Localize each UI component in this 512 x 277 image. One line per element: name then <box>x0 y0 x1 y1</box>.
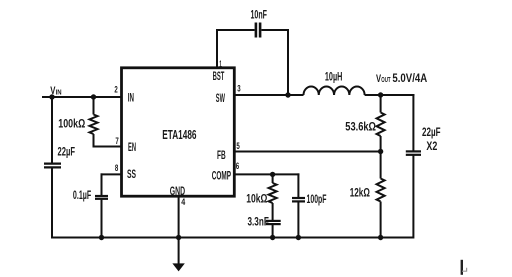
wire VIN to C1 <box>51 97 53 163</box>
svg-text:5: 5 <box>236 141 239 151</box>
resistor R4 10kΩ <box>269 183 277 203</box>
artifact text cursor <box>461 260 467 275</box>
svg-text:10µH: 10µH <box>325 69 343 83</box>
node rail junction C6 <box>296 235 301 240</box>
wire C1 to ground rail <box>51 168 53 239</box>
label C6 100pF <box>307 192 327 206</box>
svg-text:1: 1 <box>219 59 222 69</box>
pin label FB <box>217 148 226 162</box>
wire FB pin to divider <box>234 151 381 153</box>
label C5 3.3nF <box>248 214 269 228</box>
pin label SW <box>216 91 225 105</box>
label C4 X2 <box>426 139 437 153</box>
node SW/BST junction <box>285 92 290 97</box>
pin number 6 <box>236 161 239 171</box>
svg-text:COMP: COMP <box>212 168 231 182</box>
wire R1 to EN <box>93 134 122 148</box>
svg-text:BST: BST <box>213 69 225 83</box>
svg-text:22µF: 22µF <box>58 144 76 158</box>
inductor L1 10µH <box>304 87 365 96</box>
svg-text:4: 4 <box>181 197 185 207</box>
wire R2 to FB node <box>380 136 382 153</box>
pin number 5 <box>236 141 239 151</box>
wire bootstrap top right <box>262 29 290 31</box>
svg-text:IN: IN <box>56 87 62 96</box>
label C3 10nF <box>251 7 268 21</box>
capacitor C5 3.3nF <box>266 221 281 224</box>
pin number 3 <box>237 83 240 93</box>
pin number 4 <box>181 197 185 207</box>
svg-text:3.3nF: 3.3nF <box>248 214 269 228</box>
svg-text:0.1µF: 0.1µF <box>73 188 91 202</box>
capacitor C6 100pF <box>292 198 305 201</box>
wire C5 to ground rail <box>272 224 274 238</box>
wire COMP corner down to C6 <box>297 173 299 197</box>
pin label EN <box>128 140 136 154</box>
node rail junction C2 <box>99 235 104 240</box>
pin number 2 <box>114 84 117 94</box>
node VIN junction (C1 tap) <box>49 94 54 99</box>
svg-text:53.6kΩ: 53.6kΩ <box>345 119 376 133</box>
resistor R2 53.6kΩ <box>377 113 385 137</box>
svg-text:100pF: 100pF <box>307 192 327 206</box>
svg-text:8: 8 <box>115 163 118 173</box>
wire VOUT to R2 <box>380 95 382 113</box>
label R3 12kΩ <box>350 185 370 199</box>
pin label GND <box>170 184 185 198</box>
pin label COMP <box>212 168 231 182</box>
resistor R1 100kΩ <box>90 115 98 134</box>
label R1 100kΩ <box>58 117 85 131</box>
svg-text:OUT: OUT <box>381 75 391 84</box>
svg-text:6: 6 <box>236 161 239 171</box>
svg-text:2: 2 <box>114 84 117 94</box>
pin number 1 <box>219 59 222 69</box>
wire C6 to ground rail <box>297 202 299 239</box>
node rail junction R3 <box>378 235 383 240</box>
svg-text:EN: EN <box>128 140 136 154</box>
wire VIN to R1 <box>93 97 95 115</box>
svg-text:12kΩ: 12kΩ <box>350 185 370 199</box>
wire GND pin down <box>178 196 180 265</box>
svg-text:IN: IN <box>128 91 134 105</box>
node rail junction C5 <box>270 235 275 240</box>
pin number 7 <box>115 136 118 146</box>
wire C4 to ground rail <box>412 155 414 239</box>
svg-text:10nF: 10nF <box>251 7 268 21</box>
capacitor C4 22µF X2 <box>406 151 421 154</box>
capacitor C2 0.1µF <box>95 196 108 199</box>
label L1 10µH <box>325 69 343 83</box>
label VIN <box>50 85 61 97</box>
node COMP junction <box>270 172 275 177</box>
pin label IN <box>128 91 134 105</box>
wire COMP to R4 <box>272 174 274 183</box>
svg-text:7: 7 <box>115 136 118 146</box>
resistor R3 12kΩ <box>377 179 385 202</box>
node 100k tap junction <box>91 94 96 99</box>
label R4 10kΩ <box>246 191 267 205</box>
wire COMP pin out <box>234 173 299 175</box>
pin number 8 <box>115 163 118 173</box>
label C2 0.1µF <box>73 188 91 202</box>
wire R4 to C5 <box>272 203 274 221</box>
wire FB node to R3 <box>380 152 382 179</box>
svg-text:5.0V/4A: 5.0V/4A <box>392 71 427 85</box>
svg-text:SW: SW <box>216 91 225 105</box>
svg-text:10kΩ: 10kΩ <box>246 191 267 205</box>
pin label BST <box>213 69 225 83</box>
wire VOUT to C4 <box>412 94 414 151</box>
svg-text:3: 3 <box>237 83 240 93</box>
label U1 ETA1486 <box>162 127 196 142</box>
wire inductor to VOUT node <box>365 94 415 96</box>
wire BST pin up <box>216 29 218 68</box>
svg-text:SS: SS <box>127 167 136 181</box>
wire C2 to ground rail <box>101 199 103 239</box>
svg-text:100kΩ: 100kΩ <box>58 117 85 131</box>
svg-text:ETA1486: ETA1486 <box>162 127 196 142</box>
capacitor C1 22µF <box>44 164 61 168</box>
svg-text:22µF: 22µF <box>422 125 441 139</box>
node VOUT junction <box>378 92 383 97</box>
node rail junction GND pin <box>176 235 181 240</box>
svg-text:X2: X2 <box>426 139 437 153</box>
label C4 22µF <box>422 125 441 139</box>
pin label SS <box>127 167 136 181</box>
capacitor C3 10nF <box>256 23 260 38</box>
wire bootstrap down to SW <box>287 29 289 95</box>
wire bootstrap top left <box>216 29 255 31</box>
net ground rail <box>52 237 413 239</box>
label R2 53.6kΩ <box>345 119 376 133</box>
label VOUT 5.0V/4A <box>376 71 427 85</box>
svg-text:GND: GND <box>170 184 185 198</box>
op-amp U1 ETA1486 body <box>122 68 235 196</box>
ground symbol <box>173 264 183 271</box>
wire SW pin to inductor <box>234 94 304 96</box>
net VIN input wire <box>42 96 121 98</box>
node FB junction <box>378 149 383 154</box>
wire SS pin to C2 <box>101 173 122 195</box>
label C1 22µF <box>58 144 76 158</box>
wire R3 to ground rail <box>380 202 382 239</box>
svg-text:FB: FB <box>217 148 226 162</box>
